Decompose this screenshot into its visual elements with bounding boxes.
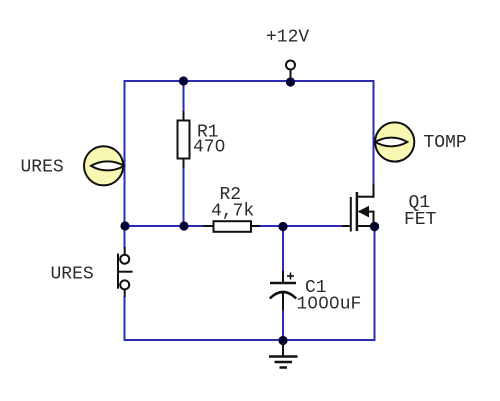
capacitor C1 [270,271,296,310]
wire left rail switch upper lead [124,226,126,248]
label R2 [220,185,242,205]
lamp URES (left) [84,146,124,185]
wire left rail upper (top rail to middle node) [124,80,126,227]
pushbutton switch URES [117,247,133,297]
label Q1 [409,193,431,213]
ground [269,340,298,368]
wire R1 branch upper [183,81,185,113]
node middle rail at R1 branch [179,221,188,230]
node middle rail at left rail [120,221,129,230]
wire C1 branch lower [282,308,284,341]
wire right rail upper (top rail to MOSFET drain) [373,80,375,185]
label +12V [266,27,309,47]
svg-text:1000uF: 1000uF [297,295,362,315]
wire left rail switch lower lead [124,296,126,341]
svg-text:TOMP: TOMP [424,133,467,153]
label C1 value 1000uF [297,295,362,315]
wire right rail lower (MOSFET source to bottom rail) [374,227,376,342]
svg-text:URES: URES [21,157,64,177]
label R1 value 470 [193,138,225,158]
wire bottom rail [124,339,376,341]
resistor R2 [203,221,260,232]
transistor Q1 N-MOSFET [342,184,375,232]
wire middle rail (gate net) [124,225,343,227]
label TOMP [424,133,467,153]
wire top rail (+12V rail) [124,80,375,82]
node MOSFET source [370,222,379,231]
svg-text:+12V: +12V [266,27,309,47]
label URES (switch) [51,264,94,284]
label R1 [197,122,219,142]
label URES (lamp) [21,157,64,177]
resistor R1 [178,111,190,168]
node on top rail at R1 branch [179,76,188,85]
label R2 value 4,7k [211,201,254,221]
wire R1 branch lower [183,166,185,227]
svg-text:URES: URES [51,264,94,284]
lamp TOMP (right) [375,122,414,161]
svg-text:FET: FET [404,210,437,230]
wire C1 branch upper [282,226,284,272]
label Q1 type FET [404,210,437,230]
node middle rail at C1 branch [278,222,287,231]
svg-text:4,7k: 4,7k [211,201,254,221]
node bottom rail at ground [278,336,287,345]
label C1 [305,278,327,298]
node on top rail at +12V terminal [286,77,295,86]
terminal +12V [286,61,295,81]
